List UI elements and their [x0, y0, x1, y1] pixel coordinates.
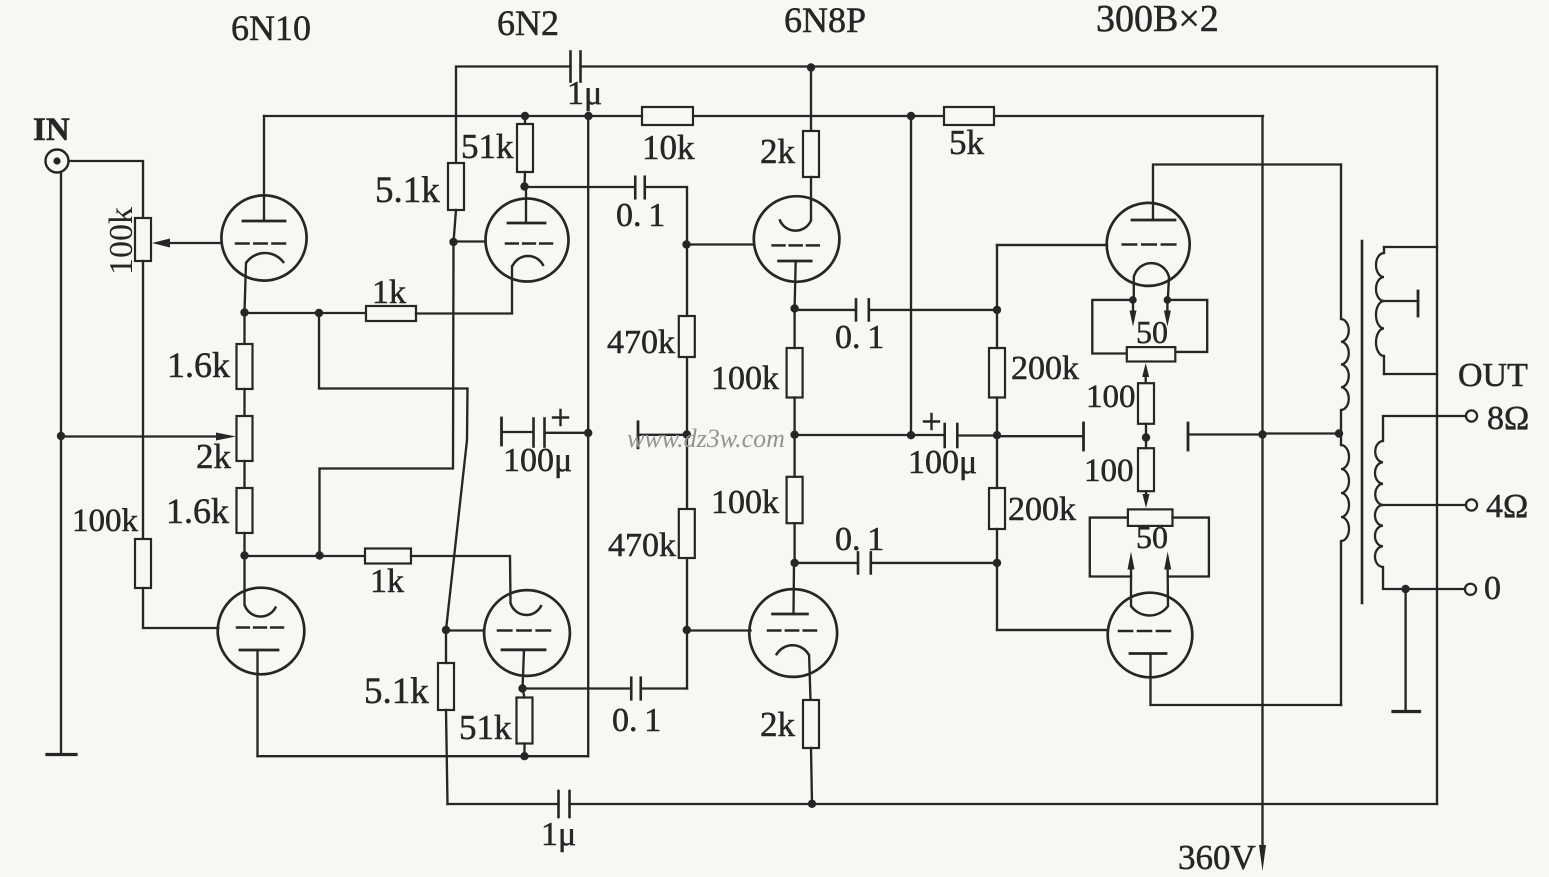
transformer primary winding lower — [1341, 445, 1349, 541]
wire V2b grid node to tube — [446, 629, 484, 631]
ground GND1 — [47, 753, 76, 756]
V3b plate lead — [792, 563, 795, 614]
tube V1a 6N10 envelope — [221, 195, 306, 280]
bar center left — [1082, 423, 1085, 450]
wire B+ to primary tap — [1263, 432, 1340, 434]
svg-text:100μ: 100μ — [908, 444, 977, 481]
node B+ transformer tap — [1258, 430, 1266, 438]
svg-text:100μ: 100μ — [503, 442, 572, 479]
svg-text:0. 1: 0. 1 — [835, 319, 884, 356]
V4 plate lead — [1153, 165, 1341, 221]
wire V2b plate to C4 — [523, 687, 632, 689]
resistor R21 100 — [1138, 383, 1154, 424]
node 470k top / 6N8Pa grid — [682, 240, 690, 248]
wire V1b plate to rail corner — [258, 755, 588, 757]
node V1a cathode — [240, 308, 248, 316]
V4 grid — [1123, 243, 1136, 246]
V2a plate — [508, 222, 545, 225]
wire RP1 bottom to R100k2 — [142, 261, 144, 539]
resistor R16 100k — [787, 348, 803, 398]
wire R19 down — [996, 529, 998, 563]
svg-text:4Ω: 4Ω — [1486, 488, 1528, 525]
svg-text:2k: 2k — [196, 437, 232, 476]
wire V3b node to C8 — [795, 562, 858, 564]
stub bar mid chain — [637, 422, 640, 448]
V1b grid — [237, 626, 249, 629]
resistor R3 1k — [366, 306, 416, 321]
wire R4 to RP2 — [243, 389, 245, 416]
RP1 wiper arrow — [152, 239, 170, 248]
svg-text:OUT: OUT — [1458, 357, 1528, 394]
svg-text:10k: 10k — [642, 128, 695, 167]
wire R6 to V2b cathode — [411, 556, 511, 603]
secondary winding lower — [1375, 505, 1383, 567]
wire R19 up — [996, 435, 998, 488]
wire R7 to 6N2a grid node — [454, 210, 457, 242]
V3a plate lead — [795, 261, 796, 309]
svg-text:5.1k: 5.1k — [375, 170, 440, 211]
svg-text:2k: 2k — [760, 705, 796, 744]
wire center stub right — [1188, 433, 1263, 435]
wire R2 to 6N10b grid — [143, 588, 218, 628]
wire top feedback corner — [456, 67, 571, 164]
svg-text:360V: 360V — [1178, 838, 1256, 877]
svg-text:1k: 1k — [372, 274, 406, 311]
node V2b plate — [518, 684, 526, 692]
wire C2 to 470k chain — [645, 187, 687, 689]
node input rail center — [57, 432, 65, 440]
node 470k bottom / 6N8Pb grid — [683, 626, 691, 634]
capacitor C6 0.1 — [855, 299, 858, 320]
svg-text:50: 50 — [1136, 519, 1168, 555]
svg-text:1k: 1k — [370, 563, 404, 600]
pot RP4 50 — [1128, 509, 1173, 526]
resistor R10 51k — [517, 124, 533, 172]
svg-text:1μ: 1μ — [567, 75, 602, 112]
wire R13 to bottom rail — [446, 710, 448, 804]
svg-text:100k: 100k — [711, 484, 779, 521]
node plate wire 51k — [520, 752, 528, 760]
transformer primary top lead — [1340, 165, 1342, 320]
wire node to R4 — [243, 313, 245, 345]
wire R15 to cathode — [810, 177, 812, 220]
secondary top lead — [1383, 416, 1466, 441]
wire V5 hum loop right — [1168, 518, 1209, 577]
resistor R17 100k — [787, 477, 803, 523]
V4 filament — [1134, 263, 1169, 277]
V3a grid — [773, 244, 785, 247]
potentiometer RP2 2k — [237, 416, 253, 461]
node 6N2a grid — [449, 238, 457, 246]
label C5 plus — [553, 416, 568, 418]
svg-text:www.dz3w.com: www.dz3w.com — [627, 424, 785, 453]
V4 fil arrow right — [1166, 300, 1168, 312]
wire bottom rail left — [448, 803, 559, 805]
wire V3a plate to C6 — [795, 309, 856, 311]
wire center to R17 — [793, 435, 795, 477]
wire R3 to V2a cathode — [416, 266, 512, 314]
R22 wiper arrow — [1145, 491, 1147, 495]
node top wire / 2k chain — [807, 63, 815, 71]
node rail 1u-vert — [584, 112, 592, 120]
V3b plate — [773, 613, 808, 616]
svg-text:100: 100 — [1086, 379, 1136, 415]
wire input to RP2 wiper — [61, 435, 219, 437]
svg-text:1.6k: 1.6k — [166, 491, 229, 531]
secondary bottom lead — [1383, 567, 1465, 589]
svg-text:8Ω: 8Ω — [1487, 400, 1529, 437]
capacitor C1 1u — [569, 52, 572, 82]
transformer primary bottom lead — [1340, 541, 1342, 705]
node V3b plate — [790, 559, 798, 567]
RP3 wiper arrow — [1142, 363, 1149, 377]
stub bar C5 — [500, 418, 503, 445]
V2b grid — [498, 629, 511, 632]
wire jack to pot top — [69, 161, 143, 218]
tube V4 300B envelope — [1107, 203, 1190, 286]
node V4 fil right — [1164, 296, 1172, 304]
svg-text:100: 100 — [1084, 453, 1134, 489]
wire bottom rail right — [570, 803, 1438, 805]
svg-text:200k: 200k — [1011, 350, 1079, 387]
V4 plate — [1132, 219, 1175, 222]
resistor R7 5.1k — [448, 163, 464, 210]
V3b cathode — [776, 645, 809, 655]
V5 plate — [1130, 652, 1166, 655]
wire center line — [795, 434, 945, 436]
V2a grid — [506, 242, 518, 245]
V5 fil arrow right — [1167, 565, 1169, 577]
wire P1 6N2a-grid to lower-left cathode — [320, 242, 454, 556]
svg-text:6N10: 6N10 — [231, 8, 311, 48]
secondary tap 4ohm wire — [1383, 504, 1466, 506]
wire 200k chain top corner — [997, 245, 1107, 310]
wire plate rail — [264, 115, 1263, 117]
V3b grid — [768, 629, 780, 632]
V1b plate lead — [256, 650, 258, 756]
svg-text:470k: 470k — [608, 527, 676, 564]
node V1b cathode — [240, 551, 248, 559]
V1b cathode — [243, 556, 245, 605]
wire 200k mid segs — [996, 310, 998, 348]
wire grid node to V2a — [454, 240, 486, 242]
wire C7 to 200k chain — [957, 434, 997, 436]
node rail 911 — [907, 112, 915, 120]
svg-text:100k: 100k — [711, 360, 779, 397]
wire cathode node to 1k — [245, 312, 367, 314]
resistor R19 200k — [989, 488, 1005, 529]
wire C8 to 200k chain — [871, 562, 997, 564]
resistor R14 51k — [517, 698, 533, 744]
wire R17 to V3b plate node — [793, 523, 795, 563]
resistor R22 100 — [1138, 448, 1154, 491]
node V3a plate — [790, 304, 798, 312]
svg-text:1μ: 1μ — [541, 816, 576, 853]
node center left — [790, 431, 798, 439]
capacitor C5 100u — [532, 419, 535, 447]
arrow 360V feed — [1259, 845, 1266, 871]
RP2 wiper arrow — [216, 433, 236, 441]
wire center stub left — [997, 435, 1084, 437]
node 200k mid — [993, 431, 1001, 439]
wire jack down left rail — [60, 173, 62, 755]
V5 grid — [1119, 630, 1132, 633]
node primary tap — [1335, 429, 1343, 437]
V2b plate — [502, 648, 545, 651]
resistor R18 200k — [989, 348, 1005, 398]
wire 2k chain top — [810, 68, 812, 132]
capacitor C8 0.1 — [857, 552, 860, 573]
wire rail corner down B+ — [1261, 116, 1263, 845]
wire C4 to chain corner — [641, 687, 687, 689]
wire C5 to rail — [545, 432, 589, 434]
transformer primary tap segment — [1340, 410, 1342, 445]
wire rail to R10 — [524, 116, 526, 124]
V2a plate lead — [525, 187, 527, 224]
wire R14 top — [523, 689, 525, 698]
node link center — [907, 431, 915, 439]
node rail 100u — [584, 429, 592, 437]
resistor R11 470k — [679, 316, 695, 357]
node bottom rail 2k chain — [808, 800, 816, 808]
svg-text:300B×2: 300B×2 — [1096, 0, 1219, 40]
resistor R4 1.6k — [237, 344, 253, 389]
svg-text:2k: 2k — [760, 132, 796, 171]
svg-text:200k: 200k — [1008, 491, 1076, 528]
vertical rail 1u/100u — [587, 116, 589, 756]
capacitor C7 100u — [943, 424, 946, 447]
wire V2b grid node to R13 — [445, 630, 447, 663]
wire C5 stub — [502, 431, 534, 433]
input jack J1 — [46, 150, 69, 173]
node rail 51k — [521, 112, 529, 120]
svg-text:51k: 51k — [461, 127, 514, 166]
wire RP1 wiper to 6N10a grid — [157, 242, 222, 244]
wire V5 hum loop left — [1090, 518, 1131, 577]
node V4 fil left — [1129, 296, 1137, 304]
svg-text:0: 0 — [1484, 570, 1501, 607]
wire 200k chain bottom corner — [997, 563, 1107, 630]
V1b plate — [240, 649, 278, 652]
terminal 0 — [1465, 584, 1476, 595]
resistor R9 5k — [944, 107, 994, 125]
tube V5 300B envelope — [1108, 593, 1193, 678]
tube V2a 6N2 envelope — [486, 199, 569, 282]
transformer primary winding upper — [1341, 319, 1349, 410]
svg-text:100k: 100k — [103, 207, 140, 275]
tube V3a 6N8P envelope — [754, 196, 840, 282]
wire V4 grid — [997, 244, 1107, 246]
bar center right — [1187, 423, 1190, 450]
svg-text:5.1k: 5.1k — [364, 671, 429, 712]
capacitor C2 0.1 — [634, 177, 637, 199]
resistor R2 100k — [135, 539, 151, 588]
wire lower cathode line — [245, 555, 366, 557]
feedback winding top wire — [1384, 246, 1437, 248]
tube V3b 6N8P envelope — [749, 589, 837, 677]
wire C6 to 200k chain — [869, 309, 997, 311]
wire to V3b grid — [687, 629, 751, 631]
svg-text:0. 1: 0. 1 — [612, 702, 661, 739]
svg-text:6N2: 6N2 — [497, 3, 559, 43]
node 470k mid — [683, 430, 691, 438]
wire R22 up — [1145, 438, 1147, 449]
V3a plate — [779, 260, 812, 263]
secondary winding upper — [1375, 441, 1383, 505]
svg-text:6N8P: 6N8P — [784, 0, 866, 40]
svg-text:1.6k: 1.6k — [167, 345, 230, 385]
wire C1 to output vertical — [581, 65, 1438, 67]
node V2b grid — [442, 626, 450, 634]
wire P2 upper cathode to 6N2b-grid — [319, 313, 468, 630]
feedback winding lower — [1376, 301, 1384, 356]
svg-text:470k: 470k — [607, 324, 675, 361]
node 200k bottom — [993, 559, 1001, 567]
feedback winding bottom wire — [1384, 373, 1437, 375]
node upper cathode / cross-couple — [315, 309, 323, 317]
V1a grid — [236, 242, 249, 245]
svg-text:0. 1: 0. 1 — [616, 197, 665, 234]
wire rail-center link — [910, 116, 912, 435]
svg-text:100k: 100k — [72, 503, 139, 539]
svg-text:0. 1: 0. 1 — [835, 521, 884, 558]
terminal 8ohm — [1466, 410, 1477, 421]
feedback winding upper — [1383, 247, 1385, 253]
resistor R12 470k — [679, 509, 695, 558]
V2b plate lead — [523, 650, 525, 689]
resistor R15 2k — [803, 131, 819, 177]
resistor R8 10k — [642, 107, 693, 125]
node 100-100 center — [1142, 433, 1150, 441]
V1a plate — [243, 220, 285, 223]
resistor R20 2k — [803, 700, 819, 748]
svg-text:5k: 5k — [949, 123, 985, 162]
tube V2b 6N2 envelope — [484, 590, 570, 676]
V5 filament — [1131, 606, 1168, 615]
label C7 plus — [924, 420, 939, 422]
V3a cathode — [780, 219, 812, 230]
tube V1b 6N10 envelope — [218, 588, 305, 675]
V5 fil arrow left — [1130, 565, 1132, 577]
wire R20 to bottom rail — [811, 748, 812, 804]
wire R21 down — [1145, 424, 1147, 438]
V1a plate lead — [263, 116, 265, 221]
wire V5 grid — [997, 629, 1108, 631]
wire RP2 to R5 — [243, 461, 245, 488]
V1a cathode — [246, 253, 284, 263]
node 200k top — [993, 306, 1001, 314]
node P1 end — [315, 551, 323, 559]
V5 plate lead — [1151, 654, 1342, 706]
V2b cathode — [511, 603, 542, 615]
resistor R6 1k — [365, 549, 411, 564]
svg-text:50: 50 — [1136, 314, 1168, 350]
transformer core — [1361, 241, 1364, 603]
svg-text:51k: 51k — [459, 708, 512, 747]
wire R16 down — [793, 398, 795, 435]
wire V4 hum loop left — [1092, 300, 1133, 354]
node V2a plate — [520, 182, 528, 190]
wire V4 hum loop right — [1167, 300, 1207, 352]
feedback vertical — [1436, 67, 1438, 805]
wire R5 to lower cathode node — [243, 533, 245, 556]
terminal 4ohm — [1466, 499, 1477, 510]
V2a cathode — [513, 256, 544, 266]
svg-text:IN: IN — [33, 112, 70, 148]
wire R14 bottom — [523, 744, 525, 757]
wire R10 to plate node — [523, 172, 526, 187]
wire plate node to C2 — [525, 186, 636, 188]
ground GND2 — [1404, 589, 1406, 711]
wire R16 up — [793, 309, 795, 349]
wire to V3a grid — [687, 243, 755, 245]
V4 fil arrow left — [1132, 300, 1134, 312]
node secondary 0 — [1401, 585, 1409, 593]
feedback winding tap — [1384, 300, 1418, 302]
resistor R5 1.6k — [237, 488, 253, 533]
potentiometer RP1 100k — [135, 218, 151, 261]
resistor R13 5.1k — [438, 663, 454, 710]
pot RP3 50 — [1127, 347, 1176, 361]
capacitor C3 1u — [557, 791, 560, 817]
capacitor C4 0.1 — [630, 678, 633, 700]
